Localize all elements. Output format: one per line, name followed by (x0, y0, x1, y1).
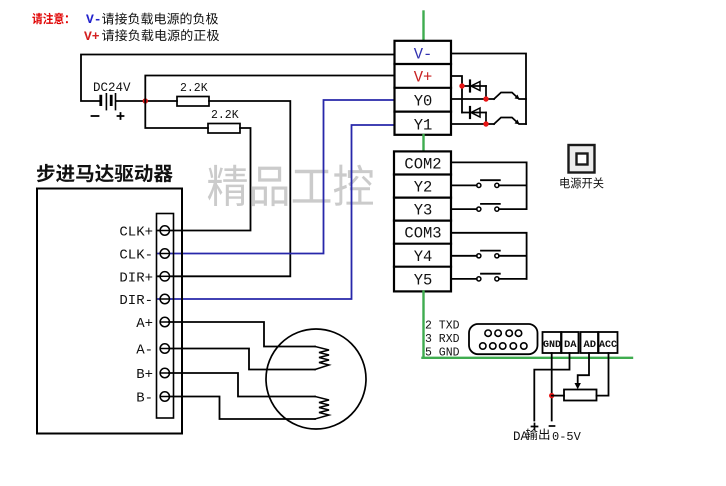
power switch label (560, 177, 603, 188)
terminal stub lines through circles (160, 231, 169, 397)
wire pot to ACC (597, 353, 609, 396)
green wire top (422, 12, 424, 41)
node junction battery+ (143, 98, 148, 103)
wire Y1 row (451, 123, 494, 125)
svg-text:Y3: Y3 (414, 202, 433, 220)
wire V+ to diodes (451, 76, 462, 113)
green wire between blocks (422, 135, 424, 151)
contact K5 wires (451, 278, 527, 280)
winding B (315, 397, 329, 420)
motor M1 (266, 329, 366, 429)
winding A (315, 347, 329, 370)
svg-text:DC24V: DC24V (93, 81, 131, 95)
terminal AD (581, 332, 599, 353)
contact K4 wires (451, 255, 527, 257)
wire GND down (551, 353, 553, 421)
contact K2 (477, 183, 481, 187)
wire node to pot (552, 395, 564, 397)
wire Y0 row (451, 98, 494, 100)
svg-text:5 GND: 5 GND (425, 347, 460, 360)
green bus wire (423, 357, 633, 359)
resistor R1 2.2K (177, 97, 209, 107)
svg-text:CLK+: CLK+ (119, 225, 153, 241)
terminal circles (160, 226, 169, 401)
wire junction up to V+ (145, 76, 394, 102)
DB9 connector J1 (469, 324, 538, 354)
wire B- to motor (169, 397, 315, 420)
svg-text:2 TXD: 2 TXD (425, 320, 460, 333)
contact K4 (477, 254, 481, 258)
diode D1 line (462, 85, 486, 87)
wire Y1 to DIR- (blue) (158, 125, 395, 299)
svg-text:DIR+: DIR+ (119, 270, 153, 286)
polarity minus (550, 425, 555, 427)
node Y1 (483, 121, 488, 126)
power switch S1 (569, 145, 595, 173)
wire D1 to Y0 node (485, 86, 487, 99)
svg-text:V-: V- (86, 12, 102, 27)
node V+ rail (459, 83, 464, 88)
svg-text:Y2: Y2 (414, 179, 433, 197)
svg-text:Y5: Y5 (414, 272, 433, 290)
potentiometer RP1 (564, 390, 597, 401)
wire battery minus to V- (81, 55, 395, 102)
driver box (37, 189, 182, 434)
wire D2 to Y1 node (485, 113, 487, 125)
wire A+ to motor (169, 322, 315, 347)
wire DA to plus (534, 353, 569, 421)
svg-text:V+: V+ (414, 69, 433, 87)
lower terminal block (394, 151, 451, 291)
wire COM3 loop (451, 233, 527, 279)
polarity plus (532, 424, 538, 430)
driver pin labels (119, 225, 153, 407)
svg-text:A-: A- (136, 343, 153, 359)
terminal ACC (599, 332, 618, 353)
terminal DA (562, 332, 579, 353)
contact K3 wires (451, 208, 527, 210)
note heading (32, 13, 68, 25)
svg-text:Y1: Y1 (414, 117, 433, 135)
contact K3 (477, 207, 481, 211)
wire COM2 loop (451, 162, 527, 209)
terminal GND (543, 332, 562, 353)
wire Y0 to CLK- (blue) (158, 100, 395, 254)
wire V- loop (451, 54, 526, 125)
svg-text:COM2: COM2 (404, 156, 441, 174)
svg-text:DA: DA (564, 339, 577, 351)
diode D2 line (462, 112, 486, 114)
diode D1 (469, 81, 471, 92)
battery B1 DC24V (101, 94, 116, 110)
contact K2 wires (451, 184, 527, 186)
driver title (37, 164, 173, 182)
transistor Q1 (494, 93, 526, 100)
wire R1 to DIR+ (158, 101, 290, 276)
diode D2 (469, 107, 471, 118)
wire junction down to R2 (145, 101, 208, 128)
transistor Q2 (494, 118, 526, 125)
svg-text:CLK-: CLK- (119, 248, 153, 264)
svg-text:Y0: Y0 (414, 93, 433, 111)
contact K5 (477, 277, 481, 281)
svg-text:B+: B+ (136, 367, 153, 383)
terminal strip (157, 214, 174, 419)
svg-text:GND: GND (543, 340, 561, 351)
svg-text:ACC: ACC (599, 340, 617, 351)
watermark (208, 165, 373, 206)
svg-text:V+: V+ (84, 29, 100, 44)
svg-text:Y4: Y4 (414, 248, 433, 266)
resistor R2 2.2K (208, 124, 240, 134)
wire R2 to CLK+ (158, 128, 251, 231)
wire B+ to motor (169, 373, 315, 397)
svg-text:3 RXD: 3 RXD (425, 333, 460, 346)
svg-text:A+: A+ (136, 316, 153, 332)
svg-text:V-: V- (414, 46, 433, 64)
green wire below Y5 (422, 292, 424, 358)
svg-text:0-5V: 0-5V (552, 430, 582, 444)
wire AD to wiper (578, 353, 589, 386)
wire battery plus to R1 (116, 100, 177, 102)
svg-text:2.2K: 2.2K (211, 109, 239, 122)
battery polarity labels (92, 115, 99, 117)
svg-text:2.2K: 2.2K (180, 82, 208, 95)
node Y0 (483, 96, 488, 101)
svg-text:B-: B- (136, 391, 153, 407)
svg-text:COM3: COM3 (404, 225, 441, 243)
wire A- to motor (169, 349, 315, 370)
node GND/pot (549, 393, 554, 398)
svg-text:DIR-: DIR- (119, 293, 153, 309)
svg-text:AD: AD (584, 339, 597, 351)
upper terminal block (395, 41, 452, 135)
